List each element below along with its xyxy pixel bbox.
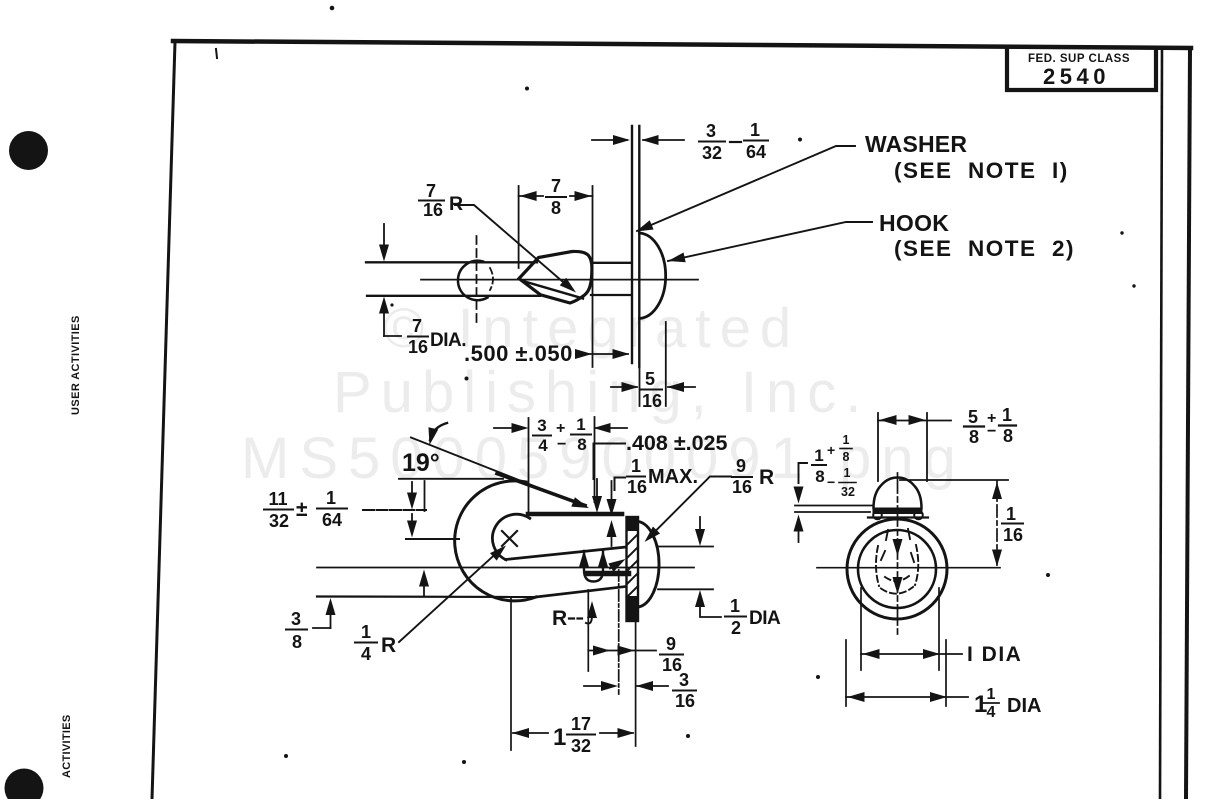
- leader to HOOK label: [668, 222, 872, 261]
- 1/8 bracket and arrows: [799, 463, 808, 483]
- 1/16 MAX up arrow: [607, 520, 617, 537]
- svg-text:DIA: DIA: [1007, 695, 1041, 717]
- label 1/8 +1/8 -1/32: [812, 433, 856, 499]
- extension lines 1/2 DIA: [658, 546, 713, 548]
- svg-text:1: 1: [553, 724, 566, 751]
- svg-text:Publishing, Inc.: Publishing, Inc.: [333, 360, 870, 425]
- hook top flat surface: [528, 512, 622, 517]
- extension line bottom edge left: [317, 595, 536, 598]
- svg-text:2: 2: [731, 618, 741, 638]
- svg-text:16: 16: [408, 337, 428, 357]
- vertical centerline (right fig): [897, 473, 899, 634]
- dimension 9/16 lower: [588, 650, 656, 652]
- lip tip solid wedge: [571, 497, 590, 512]
- 19 degree lip thick edge: [497, 474, 585, 506]
- crimp U left arrow: [579, 550, 589, 567]
- svg-text:USER ACTIVITIES: USER ACTIVITIES: [70, 315, 82, 415]
- 1/2 DIA down arrow: [699, 517, 701, 529]
- page border right outer: [1186, 48, 1190, 799]
- svg-text:5: 5: [968, 407, 978, 427]
- dimension 1 1/4 DIA extension lines: [845, 640, 847, 706]
- dimension 5/16: [611, 386, 637, 388]
- dimension 3/8 bracket arrow: [326, 598, 336, 615]
- svg-text:8: 8: [551, 198, 561, 218]
- svg-text:3: 3: [537, 416, 546, 435]
- wedge inner edge line: [523, 281, 583, 299]
- scan speck dots: [284, 6, 1136, 764]
- label 5/8 +1/8 -1/8: [964, 405, 1016, 447]
- dimension 7/8 / .500 shared extension line: [592, 186, 594, 367]
- hole centerline dash-dot vertical: [618, 570, 620, 694]
- svg-text:1: 1: [631, 456, 641, 476]
- section dashes along centerline: [587, 571, 632, 577]
- fed sup class box: [1007, 49, 1156, 90]
- dimension 3/4 +1/8 left arrow: [494, 427, 513, 429]
- label 7/8: [546, 176, 566, 218]
- page border top: [173, 41, 1191, 48]
- washer edge-on right face line: [638, 126, 640, 367]
- crimp U outline in shank: [584, 551, 603, 582]
- page border right inner: [1160, 49, 1162, 799]
- dimension 1 DIA extension lines: [860, 588, 862, 670]
- svg-text:16: 16: [1003, 525, 1023, 545]
- hidden dashed arc right: [915, 545, 918, 585]
- hole punch dot upper: [9, 131, 48, 170]
- dimension line 1 DIA: [861, 653, 962, 655]
- svg-text:16: 16: [642, 391, 662, 411]
- svg-text:32: 32: [269, 511, 289, 531]
- centerline horizontal (bottom fig): [317, 567, 694, 569]
- extension line mid left: [406, 538, 459, 540]
- extension vertical hook point: [587, 590, 589, 671]
- 19 degree lip thin line: [411, 438, 586, 507]
- dimension 7/8 extension line left: [518, 186, 520, 268]
- svg-text:8: 8: [292, 632, 302, 652]
- svg-text:3: 3: [706, 121, 716, 141]
- washer inner circle: [858, 530, 936, 608]
- svg-text:2540: 2540: [1043, 64, 1110, 89]
- label 9/16 R upper: [732, 456, 774, 497]
- cap base line: [868, 516, 928, 518]
- svg-text:8: 8: [1003, 426, 1013, 446]
- label 9/16 lower: [660, 634, 683, 675]
- crimp U right arrow: [598, 550, 608, 567]
- svg-text:8: 8: [843, 450, 850, 464]
- label 7/16 DIA: [408, 316, 466, 357]
- svg-text:1: 1: [576, 415, 585, 434]
- leader 1/4 R: [399, 549, 501, 642]
- 19 degree leader curved arrowhead: [430, 423, 447, 440]
- extension line upper left rough: [363, 509, 426, 511]
- .408 bracket: [594, 444, 626, 480]
- hole punch dot lower: [5, 769, 44, 804]
- svg-text:WASHER: WASHER: [865, 131, 967, 157]
- hidden dashed arc bottom outer: [881, 587, 913, 594]
- svg-text:4: 4: [987, 704, 996, 721]
- svg-text:19°: 19°: [402, 449, 440, 477]
- page border left: [152, 42, 175, 799]
- svg-text:1: 1: [1002, 405, 1012, 425]
- extension line dome crown below: [665, 322, 667, 406]
- radius center cross mark: [502, 531, 517, 546]
- hidden dashed arc left: [876, 546, 879, 586]
- svg-text:4: 4: [361, 644, 371, 664]
- svg-text:1: 1: [843, 433, 850, 447]
- svg-text:1: 1: [844, 466, 851, 480]
- svg-text:−: −: [987, 423, 996, 440]
- dimension line .500: [578, 353, 628, 355]
- 1/16 MAX bracket: [615, 478, 626, 491]
- svg-text:9: 9: [666, 634, 676, 654]
- dimension 11/32 lower arrow: [411, 514, 413, 521]
- washer outer circle: [847, 519, 947, 619]
- svg-text:32: 32: [702, 143, 722, 163]
- extension vertical hook back below: [510, 597, 512, 750]
- svg-text:R: R: [449, 193, 463, 215]
- svg-text:1: 1: [974, 691, 987, 718]
- svg-text:MAX.: MAX.: [648, 466, 698, 488]
- svg-text:±: ±: [296, 498, 308, 521]
- svg-text:R: R: [759, 466, 774, 489]
- svg-text:3: 3: [679, 670, 689, 690]
- svg-text:16: 16: [675, 691, 695, 711]
- svg-text:8: 8: [577, 435, 586, 454]
- svg-text:ACTIVITIES: ACTIVITIES: [61, 714, 73, 778]
- svg-text:16: 16: [627, 477, 647, 497]
- label 3/32 - 1/64: [699, 120, 768, 163]
- shank bottom line right of wedge: [591, 294, 631, 296]
- washer cross-section hatched bar: [627, 517, 639, 621]
- svg-text:R: R: [552, 607, 567, 630]
- dimension line 5/8: [878, 420, 951, 422]
- svg-text:1: 1: [730, 596, 740, 616]
- svg-text:8: 8: [815, 467, 824, 486]
- dimension 7/16 DIA arrow bottom with bracket: [379, 297, 389, 314]
- svg-text:MS50005900091.png: MS50005900091.png: [241, 426, 966, 491]
- hook tip wedge outline (top view): [519, 251, 592, 303]
- label 5/16: [640, 369, 662, 411]
- extension line washer right below: [639, 332, 641, 406]
- svg-text:I DIA: I DIA: [967, 643, 1022, 666]
- svg-text:(SEE NOTE I): (SEE NOTE I): [894, 158, 1069, 183]
- dimension 1 1/16 dash-dot stem: [996, 481, 998, 567]
- extension line cap top: [900, 479, 1008, 481]
- hook eye end cap arc: [458, 261, 488, 300]
- shank top line: [366, 261, 537, 263]
- svg-text:+: +: [827, 442, 835, 458]
- shank top line right of wedge: [592, 262, 631, 264]
- washer edge-on left face line: [631, 126, 633, 363]
- extension vertical washer face below: [635, 621, 637, 746]
- rivet cap dome outline: [874, 478, 922, 509]
- cap foot circle left: [873, 511, 882, 520]
- lip extension lines left: [795, 505, 872, 507]
- R leader curl arrow: [586, 606, 592, 624]
- dashed hidden arc near eye: [490, 268, 493, 290]
- dimension 3/4 +1/8 right arrow: [594, 423, 611, 433]
- svg-text:+: +: [556, 420, 565, 437]
- svg-text:5: 5: [645, 369, 655, 389]
- svg-text:1: 1: [750, 120, 760, 140]
- dimension line 7/8: [519, 195, 543, 197]
- svg-text:8: 8: [969, 427, 979, 447]
- svg-text:7: 7: [412, 316, 422, 336]
- svg-text:9: 9: [736, 456, 746, 476]
- svg-text:7: 7: [551, 176, 561, 196]
- dimension 5/8 extension lines: [877, 413, 879, 481]
- hook slot inner arc: [492, 514, 529, 560]
- svg-text:DIA.: DIA.: [430, 330, 466, 351]
- svg-text:7: 7: [426, 181, 436, 201]
- svg-text:32: 32: [571, 736, 591, 756]
- dimension 3/16: [584, 685, 600, 687]
- shank top edge: [506, 547, 626, 560]
- svg-text:11: 11: [268, 489, 287, 509]
- shank bottom edge: [536, 587, 626, 598]
- leader 9/16 R: [648, 477, 731, 539]
- svg-text:R: R: [381, 634, 396, 657]
- svg-text:(SEE NOTE 2): (SEE NOTE 2): [894, 236, 1075, 261]
- svg-text:16: 16: [423, 200, 443, 220]
- horizontal centerline (right fig): [817, 567, 1000, 569]
- 1/16 MAX down arrow: [611, 481, 613, 499]
- 1/2 DIA up arrow with bracket: [695, 590, 705, 607]
- small diagonal arrow at washer: [610, 562, 620, 569]
- label 3/4 + 1/8: [533, 415, 591, 455]
- dimension 11/32 upper arrow: [411, 482, 413, 493]
- label 7/16 R: [419, 181, 463, 220]
- svg-text:64: 64: [322, 510, 342, 530]
- label 3/8: [286, 609, 307, 652]
- small vertical tick at lip extension: [424, 481, 426, 511]
- dimension 3/32-1/64 arrows at washer: [592, 139, 627, 141]
- dimension 1 17/32: [512, 728, 529, 738]
- label 11/32 +- 1/64: [264, 488, 347, 531]
- label 3/16: [673, 670, 696, 711]
- svg-text:DIA: DIA: [749, 608, 781, 629]
- dimension line 1 1/4 DIA: [846, 696, 968, 698]
- label 1 1/16: [1002, 504, 1023, 545]
- svg-text:4: 4: [538, 436, 548, 455]
- svg-text:16: 16: [732, 477, 752, 497]
- svg-text:.500 ±.050: .500 ±.050: [464, 341, 573, 366]
- extension line arc top tangent: [399, 478, 503, 480]
- cap foot circle right: [914, 511, 923, 520]
- label 1/4 R: [355, 622, 396, 664]
- label 1 17/32: [553, 714, 595, 756]
- extension line 3/4 right: [594, 417, 596, 502]
- centerline arrow marks: [893, 539, 903, 556]
- leader to WASHER label: [637, 146, 855, 231]
- centerline horizontal (top fig): [421, 279, 698, 281]
- svg-text:1: 1: [814, 446, 823, 465]
- small hidden dashes near center: [881, 529, 914, 562]
- label 1 1/4 DIA: [974, 686, 1041, 721]
- svg-text:−: −: [557, 436, 566, 453]
- svg-text:1: 1: [1006, 504, 1016, 524]
- svg-text:3: 3: [291, 609, 301, 629]
- extension line 3/4 left: [528, 418, 530, 512]
- label 1/2 DIA: [725, 596, 781, 638]
- shank bottom line: [367, 295, 540, 297]
- svg-text:.408 ±.025: .408 ±.025: [626, 431, 728, 455]
- svg-text:1: 1: [987, 686, 996, 703]
- svg-text:17: 17: [571, 714, 591, 734]
- label 1/16 MAX: [627, 456, 698, 497]
- svg-text:HOOK: HOOK: [879, 210, 949, 236]
- .408 down arrow: [596, 479, 598, 496]
- hidden dashed arc bottom inner: [885, 576, 909, 581]
- hook head outer arc: [455, 481, 536, 601]
- svg-text:1: 1: [361, 622, 371, 642]
- dimension 3/8 centerline arrow: [419, 570, 429, 587]
- dashed vertical centerline of eye: [476, 236, 478, 324]
- svg-text:−: −: [827, 474, 835, 490]
- rivet dome head (top fig): [640, 233, 666, 319]
- border registration tick: [216, 49, 217, 58]
- rivet cap base bar: [873, 508, 923, 515]
- svg-text:1: 1: [326, 488, 336, 508]
- rivet dome head (bottom fig): [639, 522, 660, 608]
- leader 7/16 R with arrow: [455, 205, 570, 288]
- svg-text:64: 64: [746, 142, 766, 162]
- svg-text:32: 32: [841, 485, 855, 499]
- dimension 7/16 DIA arrow top: [383, 224, 385, 245]
